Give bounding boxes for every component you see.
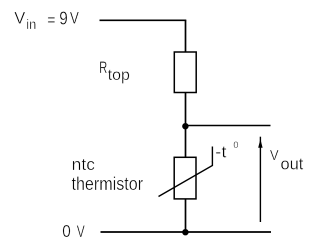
- label -t superscript o: [215, 137, 238, 162]
- svg-text:V: V: [77, 222, 85, 241]
- wire vertical from thermistor bottom to ground wire: [185, 199, 187, 232]
- svg-text:-t: -t: [215, 143, 227, 162]
- resistor R_top: [174, 52, 196, 93]
- svg-text:out: out: [281, 154, 304, 173]
- label 0 V: [62, 221, 85, 241]
- svg-text:in: in: [26, 16, 36, 32]
- wire top horizontal from Vin label to vertical trunk: [100, 19, 187, 21]
- wire vertical from resistor bottom to thermistor top (through node): [185, 93, 187, 158]
- label V_out: [270, 147, 304, 173]
- svg-text:R: R: [99, 58, 107, 77]
- arrow Vout measurement (up): [258, 137, 262, 222]
- label Vin = 9 V: [14, 9, 79, 32]
- thermistor diagonal stroke with bent end: [159, 147, 213, 197]
- svg-text:o: o: [233, 137, 238, 151]
- thermistor RT body: [174, 157, 196, 199]
- svg-text:V: V: [270, 147, 279, 164]
- svg-text:top: top: [108, 67, 130, 84]
- node junction dot on 0V rail: [182, 229, 188, 235]
- wire node horizontal branch to Vout: [185, 125, 270, 127]
- label ntc thermistor: [72, 155, 144, 194]
- svg-text:V: V: [14, 9, 26, 28]
- wire bottom 0V rail: [101, 231, 272, 233]
- node junction dot at divider tap: [182, 123, 188, 129]
- wire vertical from top wire to resistor R_top: [185, 20, 187, 52]
- svg-text:9: 9: [59, 9, 68, 29]
- svg-text:thermistor: thermistor: [72, 174, 144, 194]
- svg-text:0: 0: [62, 221, 71, 241]
- svg-text:V: V: [70, 9, 80, 28]
- label R_top: [99, 58, 130, 84]
- svg-text:=: =: [47, 12, 55, 29]
- svg-text:ntc: ntc: [72, 155, 96, 174]
